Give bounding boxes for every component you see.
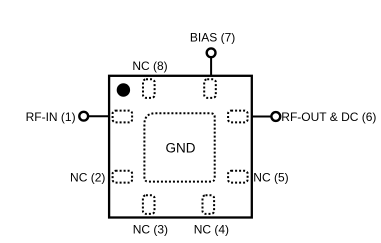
pad pin 7 BIAS (204, 79, 216, 98)
terminal RF-IN pin 1 (79, 112, 88, 121)
exposed pad GND (144, 113, 214, 181)
svg-text:BIAS (7): BIAS (7) (190, 31, 235, 45)
pad pin 8 NC (143, 79, 155, 98)
terminal BIAS pin 7 (207, 48, 216, 57)
wire BIAS (210, 58, 212, 77)
svg-text:NC (3): NC (3) (133, 223, 168, 237)
svg-text:NC (4): NC (4) (194, 223, 229, 237)
svg-text:RF-OUT & DC (6): RF-OUT & DC (6) (281, 110, 376, 124)
svg-text:GND: GND (166, 140, 196, 155)
wire RF-OUT (252, 116, 271, 118)
svg-text:NC (2): NC (2) (70, 171, 105, 185)
svg-text:NC (8): NC (8) (132, 59, 167, 73)
pad pin 3 NC (143, 195, 155, 214)
svg-text:RF-IN (1): RF-IN (1) (26, 110, 76, 124)
pad pin 6 RF-OUT (228, 111, 248, 123)
pad pin 1 RF-IN (113, 111, 133, 123)
pad pin 4 NC (203, 195, 215, 214)
wire RF-IN (89, 115, 110, 117)
package outline U1 (109, 76, 252, 218)
svg-text:NC (5): NC (5) (253, 171, 288, 185)
terminal RF-OUT pin 6 (271, 112, 280, 121)
pad pin 5 NC (228, 171, 248, 183)
pin 1 index dot (117, 83, 130, 96)
pad pin 2 NC (113, 171, 133, 183)
